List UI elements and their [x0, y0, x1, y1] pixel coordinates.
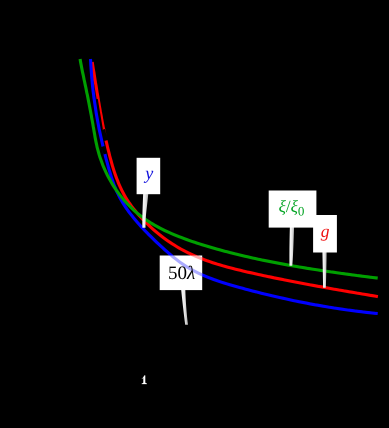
curve g (red) — [92, 62, 378, 297]
label box 50λ — [160, 256, 203, 291]
callout leader ξ/ξ₀ — [289, 226, 294, 266]
label box ξ/ξ₀ — [269, 191, 317, 228]
svg-text:y: y — [143, 163, 153, 183]
label box y — [137, 158, 161, 194]
callout leader 50λ — [181, 289, 188, 325]
pastel curves through 50λ box — [91, 59, 378, 314]
svg-text:g: g — [321, 221, 330, 241]
curve y (blue) — [91, 59, 378, 314]
curve 50λ (black, invisible; visible only as gaps where it crosses red and blue) — [97, 99, 102, 130]
label box g — [313, 215, 337, 253]
callout leader y — [142, 192, 148, 228]
curve ξ/ξ₀ (green) — [80, 59, 378, 278]
callout leader g — [322, 250, 326, 288]
x tick label 1 (drawn as path to avoid LCD fringing) — [142, 375, 147, 384]
svg-text:50λ: 50λ — [168, 263, 195, 284]
